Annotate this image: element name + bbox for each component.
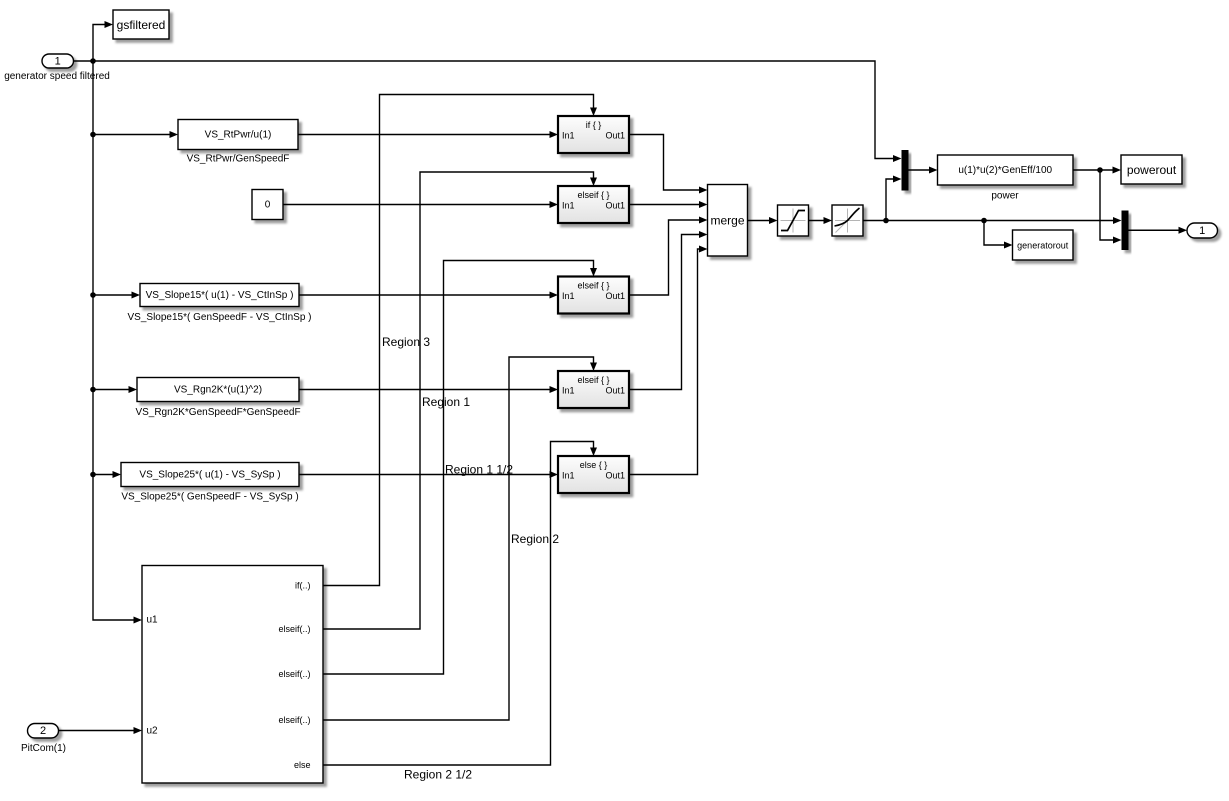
wire: VS_Slope25 output to else{} In1 xyxy=(299,471,558,478)
svg-text:In1: In1 xyxy=(562,471,575,481)
wire: Constant 0 to elseif{}1 In1 xyxy=(283,201,558,208)
wire: elseif{}2 Out1 to Merge input 3 xyxy=(629,217,708,296)
If Action Subsystem elseif{} 2 xyxy=(558,277,629,314)
Fcn VS_Rgn2K xyxy=(135,378,300,419)
svg-text:VS_Slope15*( GenSpeedF - VS_Ct: VS_Slope15*( GenSpeedF - VS_CtInSp ) xyxy=(128,312,312,323)
wire: branch up to Mux1 input 2 xyxy=(886,176,902,221)
If Action Subsystem else{} xyxy=(558,456,629,493)
svg-text:generatorout: generatorout xyxy=(1017,241,1069,251)
svg-text:VS_Slope15*( u(1) - VS_CtInSp: VS_Slope15*( u(1) - VS_CtInSp ) xyxy=(146,290,294,301)
wire: If elseif(..)3 action to elseif{}3 trigger xyxy=(323,357,597,720)
svg-text:VS_RtPwr/GenSpeedF: VS_RtPwr/GenSpeedF xyxy=(187,154,290,165)
node: bus junction row 4 xyxy=(90,387,96,393)
wire: If elseif(..)2 action to elseif{}2 trigger xyxy=(323,261,597,675)
wire: branch down to Goto generatorout xyxy=(984,221,1013,249)
svg-text:0: 0 xyxy=(265,200,271,211)
svg-text:if(..): if(..) xyxy=(295,581,311,591)
wire: bus branch to Fcn VS_Slope25 xyxy=(93,471,121,478)
Inport 1 xyxy=(4,54,110,82)
Fcn VS_RtPwr/GenSpeedF xyxy=(178,120,298,165)
Rate Limiter block xyxy=(832,205,863,236)
svg-text:else { }: else { } xyxy=(580,460,608,470)
node: junction to generatorout xyxy=(981,218,987,224)
svg-text:else: else xyxy=(294,760,311,770)
svg-text:generator speed filtered: generator speed filtered xyxy=(4,71,110,82)
wire: generator speed across top to Mux1 input 1 xyxy=(93,61,902,162)
wire: bus branch to Fcn VS_Slope15 xyxy=(93,292,140,299)
svg-text:VS_Slope25*( GenSpeedF - VS_Sy: VS_Slope25*( GenSpeedF - VS_SySp ) xyxy=(121,492,298,503)
svg-text:powerout: powerout xyxy=(1127,163,1177,177)
wire: bus branch to Fcn VS_RtPwr xyxy=(93,131,178,138)
Merge block xyxy=(708,185,748,257)
Goto generatorout xyxy=(1013,230,1074,260)
Goto powerout xyxy=(1121,155,1182,184)
wire: Mux1 to Fcn power xyxy=(909,167,938,174)
node: bus junction at input xyxy=(90,58,96,64)
node: bus junction row 5 xyxy=(90,472,96,478)
node: bus junction row 3 xyxy=(90,292,96,298)
svg-text:Out1: Out1 xyxy=(605,291,625,301)
Fcn VS_Slope15 xyxy=(128,284,312,324)
wire: bus branch to Fcn VS_Rgn2K xyxy=(93,386,137,393)
svg-text:In1: In1 xyxy=(562,201,575,211)
svg-text:VS_Slope25*( u(1) - VS_SySp ): VS_Slope25*( u(1) - VS_SySp ) xyxy=(139,470,280,481)
Fcn power xyxy=(938,155,1074,202)
svg-text:1: 1 xyxy=(55,56,61,68)
svg-text:elseif(..): elseif(..) xyxy=(278,624,310,634)
wire: power to Goto powerout xyxy=(1073,167,1121,174)
node: junction torque line xyxy=(883,218,889,224)
wire: Saturation to Rate Limiter xyxy=(809,217,833,224)
wire: If else action to else{} trigger xyxy=(323,442,597,766)
Mux1 xyxy=(902,150,909,191)
svg-text:Out1: Out1 xyxy=(605,471,625,481)
svg-text:u(1)*u(2)*GenEff/100: u(1)*u(2)*GenEff/100 xyxy=(958,165,1052,176)
wire: If if(..) action to if{} trigger xyxy=(323,95,597,586)
svg-text:Region 1 1/2: Region 1 1/2 xyxy=(445,463,513,477)
svg-text:2: 2 xyxy=(40,725,46,737)
svg-text:Out1: Out1 xyxy=(605,201,625,211)
svg-text:VS_Rgn2K*GenSpeedF*GenSpeedF: VS_Rgn2K*GenSpeedF*GenSpeedF xyxy=(135,407,300,418)
node: junction power line xyxy=(1097,167,1103,173)
Inport 2 xyxy=(21,724,66,755)
Mux2 xyxy=(1122,211,1129,251)
wire: branch down to Mux2 input 2 xyxy=(1100,170,1122,244)
svg-text:elseif { }: elseif { } xyxy=(577,281,609,291)
svg-text:elseif { }: elseif { } xyxy=(577,375,609,385)
svg-text:In1: In1 xyxy=(562,386,575,396)
svg-text:In1: In1 xyxy=(562,291,575,301)
svg-text:u2: u2 xyxy=(147,726,159,737)
wire: left bus down to If block u1 xyxy=(93,61,142,624)
svg-text:PitCom(1): PitCom(1) xyxy=(21,743,66,754)
wire: VS_Slope15 output to elseif{}2 In1 xyxy=(299,292,558,299)
wire: else{} Out1 to Merge input 5 xyxy=(629,246,708,475)
svg-text:Out1: Out1 xyxy=(605,386,625,396)
wire: Mux2 to Outport 1 xyxy=(1129,227,1188,234)
wire: Merge to Saturation xyxy=(748,217,778,224)
svg-text:Region 1: Region 1 xyxy=(422,395,470,409)
node: bus junction row 1 xyxy=(90,132,96,138)
wire: elseif{}1 Out1 to Merge input 2 xyxy=(629,201,708,208)
wire: Rate Limiter to Mux2 input 1 xyxy=(863,217,1122,224)
If Action Subsystem elseif{} 1 xyxy=(558,186,629,223)
wire: Inport 2 to If block u2 xyxy=(59,727,143,734)
wire: VS_RtPwr output to if{} In1 xyxy=(298,131,558,138)
svg-text:merge: merge xyxy=(710,214,744,228)
Outport 1 xyxy=(1187,223,1218,238)
wire: bus up to Goto gsfiltered xyxy=(93,21,113,61)
Saturation block xyxy=(778,205,809,236)
wire: Inport 1 to bus junction xyxy=(74,60,94,62)
wire: if{} Out1 to Merge input 1 xyxy=(629,135,708,194)
svg-text:u1: u1 xyxy=(147,615,159,626)
svg-text:Out1: Out1 xyxy=(605,131,625,141)
svg-text:elseif { }: elseif { } xyxy=(577,190,609,200)
svg-text:VS_Rgn2K*(u(1)^2): VS_Rgn2K*(u(1)^2) xyxy=(174,385,262,396)
wire: elseif{}3 Out1 to Merge input 4 xyxy=(629,231,708,390)
svg-text:if { }: if { } xyxy=(586,120,602,130)
svg-text:VS_RtPwr/u(1): VS_RtPwr/u(1) xyxy=(205,130,272,141)
svg-text:In1: In1 xyxy=(562,131,575,141)
svg-text:elseif(..): elseif(..) xyxy=(278,669,310,679)
Goto gsfiltered xyxy=(113,10,169,39)
svg-text:Region 2 1/2: Region 2 1/2 xyxy=(404,768,472,782)
svg-text:Region 2: Region 2 xyxy=(511,532,559,546)
Fcn VS_Slope25 xyxy=(121,463,299,503)
Constant 0 xyxy=(252,190,283,220)
svg-text:power: power xyxy=(991,191,1019,202)
svg-text:Region 3: Region 3 xyxy=(382,335,430,349)
wire: If elseif(..)1 action to elseif{}1 trigger xyxy=(323,172,597,629)
If Action Subsystem if{} xyxy=(558,116,629,153)
svg-text:1: 1 xyxy=(1199,225,1205,237)
wire: VS_Rgn2K output to elseif{}3 In1 xyxy=(299,386,558,393)
If block xyxy=(142,566,323,784)
svg-text:elseif(..): elseif(..) xyxy=(278,715,310,725)
If Action Subsystem elseif{} 3 xyxy=(558,371,629,408)
svg-text:gsfiltered: gsfiltered xyxy=(117,18,166,32)
